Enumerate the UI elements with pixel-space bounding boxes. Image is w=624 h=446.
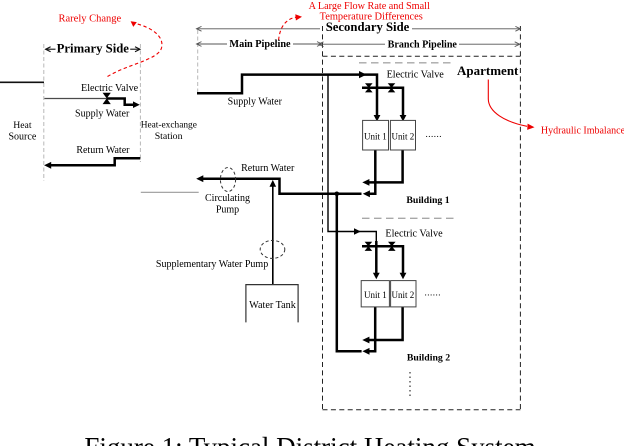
svg-text:......: ......: [426, 129, 443, 139]
svg-text:Unit 1: Unit 1: [364, 290, 387, 300]
svg-text:Electric Valve: Electric Valve: [385, 228, 443, 239]
svg-text:Return Water: Return Water: [241, 163, 295, 174]
svg-text:Heat-exchange: Heat-exchange: [141, 120, 197, 130]
svg-text:Electric Valve: Electric Valve: [81, 83, 139, 94]
svg-text:Building 1: Building 1: [406, 195, 449, 206]
svg-text:......: ......: [425, 288, 442, 298]
svg-text:Rarely Change: Rarely Change: [59, 13, 122, 24]
svg-text:Unit 2: Unit 2: [392, 290, 415, 300]
svg-text:Apartment: Apartment: [457, 63, 519, 78]
svg-text:Supply Water: Supply Water: [228, 96, 283, 107]
svg-text:Hydraulic Imbalance: Hydraulic Imbalance: [541, 125, 624, 136]
svg-text:Electric Valve: Electric Valve: [387, 70, 445, 81]
svg-text:Heat: Heat: [13, 120, 32, 131]
svg-text:Main Pipeline: Main Pipeline: [229, 39, 291, 50]
svg-text:Return Water: Return Water: [76, 145, 130, 156]
svg-text:Building 2: Building 2: [407, 352, 450, 363]
svg-text:Primary Side: Primary Side: [57, 42, 130, 56]
svg-text:Unit 2: Unit 2: [392, 131, 415, 141]
svg-text:Supply Water: Supply Water: [75, 108, 130, 119]
svg-text:Supplementary Water Pump: Supplementary Water Pump: [156, 259, 268, 270]
svg-text:A Large Flow Rate and Small: A Large Flow Rate and Small: [309, 1, 430, 12]
svg-text:Unit 1: Unit 1: [364, 131, 387, 141]
svg-text:Secondary Side: Secondary Side: [326, 20, 410, 34]
svg-text:Source: Source: [9, 132, 37, 143]
svg-text:Pump: Pump: [216, 205, 239, 216]
svg-text:Circulating: Circulating: [205, 193, 250, 204]
svg-text:Water Tank: Water Tank: [249, 300, 297, 311]
svg-text:Station: Station: [155, 131, 183, 142]
svg-text:Branch Pipeline: Branch Pipeline: [388, 39, 458, 50]
svg-text:Figure 1: Typical District Hea: Figure 1: Typical District Heating Syste…: [84, 432, 535, 446]
